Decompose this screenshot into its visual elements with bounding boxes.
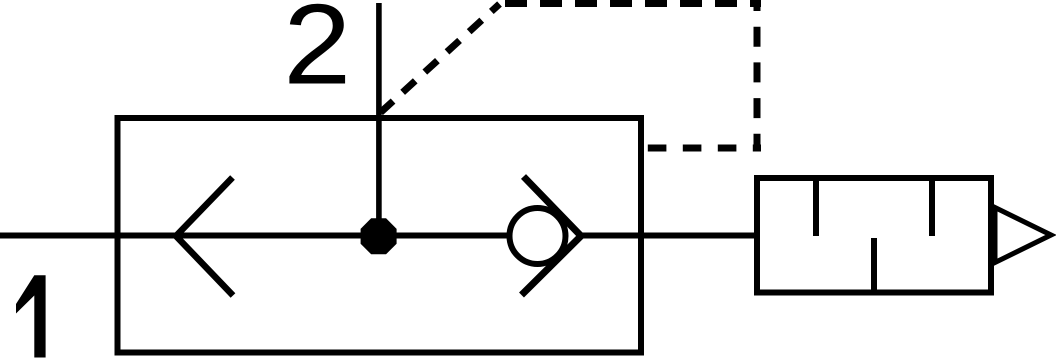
- svg-text:2: 2: [283, 0, 351, 109]
